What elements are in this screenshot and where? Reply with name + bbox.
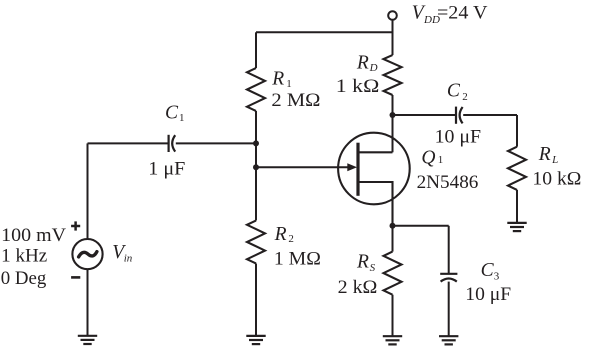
svg-text:10 μF: 10 μF [465, 284, 511, 305]
svg-text:R: R [274, 224, 287, 245]
wire C3 to ground [448, 282, 450, 337]
svg-text:R: R [538, 144, 551, 165]
svg-text:R: R [356, 53, 369, 74]
svg-text:2N5486: 2N5486 [417, 172, 479, 193]
minus sign [71, 276, 80, 279]
wire source to RS [392, 226, 394, 252]
node source junction [390, 223, 396, 229]
svg-text:10 kΩ: 10 kΩ [532, 168, 581, 189]
svg-text:1 μF: 1 μF [148, 159, 185, 180]
wire R1 column top [255, 32, 257, 68]
svg-text:2 MΩ: 2 MΩ [271, 90, 320, 111]
svg-text:S: S [370, 262, 376, 274]
transistor Q1 channel bar [356, 143, 359, 196]
node gate wire junction [253, 164, 259, 170]
wire VDD stub [392, 20, 394, 55]
resistor RD [384, 55, 402, 95]
svg-text:100 mV: 100 mV [1, 225, 66, 246]
wire RL to ground [516, 190, 518, 223]
resistor RS [384, 252, 402, 295]
wire C2 to RL [463, 114, 517, 116]
wire RL top [516, 115, 518, 147]
capacitor C3 [440, 273, 457, 275]
svg-text:1 MΩ: 1 MΩ [274, 248, 321, 269]
svg-text:D: D [369, 62, 378, 74]
wire Vin bottom [87, 270, 89, 336]
wire C1 left [88, 142, 169, 144]
svg-text:1: 1 [438, 154, 444, 166]
svg-text:Q: Q [421, 147, 435, 168]
wire top rail VDD [256, 31, 393, 33]
svg-text:R: R [356, 252, 369, 273]
ground RS [383, 336, 402, 344]
svg-text:2 kΩ: 2 kΩ [338, 277, 378, 298]
resistor R2 [247, 221, 265, 264]
source Vin [72, 239, 102, 269]
svg-text:C: C [165, 103, 179, 124]
node gate bias junction [253, 140, 259, 146]
capacitor C1 [168, 135, 170, 152]
svg-text:10 μF: 10 μF [435, 127, 482, 148]
ground R2 [246, 336, 265, 344]
wire R1 bottom to gate node [255, 111, 257, 168]
ground Vin [78, 336, 97, 344]
svg-text:C: C [481, 260, 495, 281]
svg-text:=24 V: =24 V [437, 3, 488, 24]
svg-text:0 Deg: 0 Deg [1, 268, 47, 289]
wire gate to JFET [256, 166, 350, 168]
svg-text:1: 1 [286, 78, 292, 90]
svg-text:2: 2 [462, 91, 468, 103]
transistor Q1 drain lead [358, 151, 393, 153]
svg-text:3: 3 [494, 270, 500, 282]
node drain junction [390, 112, 396, 118]
capacitor C2 [455, 107, 457, 124]
svg-text:2: 2 [288, 233, 294, 245]
transistor Q1 gate arrow [347, 163, 357, 171]
resistor RL [508, 147, 526, 190]
wire RS to ground [392, 295, 394, 337]
svg-text:R: R [271, 69, 284, 90]
resistor R1 [247, 68, 265, 111]
wire R2 column [255, 167, 257, 220]
svg-text:1: 1 [179, 112, 185, 124]
ground C3 [439, 336, 458, 344]
wire Vin top [87, 143, 89, 238]
wire C3 top [448, 226, 450, 274]
svg-text:1 kHz: 1 kHz [1, 246, 47, 267]
svg-text:C: C [447, 81, 461, 102]
plus sign [71, 221, 80, 230]
transistor Q1 source lead [358, 182, 393, 226]
JFET Q1 circle [338, 133, 410, 205]
wire source row to C3 [393, 225, 449, 227]
VDD terminal [388, 11, 397, 20]
ground RL [507, 223, 526, 231]
wire R2 to ground [255, 264, 257, 336]
wire output row to C2 [393, 114, 457, 116]
wire C1 right to gate column [176, 142, 256, 144]
svg-text:in: in [124, 253, 133, 265]
svg-text:1 kΩ: 1 kΩ [336, 76, 380, 97]
svg-text:L: L [551, 154, 558, 166]
wire RD bottom to drain node [392, 95, 394, 152]
